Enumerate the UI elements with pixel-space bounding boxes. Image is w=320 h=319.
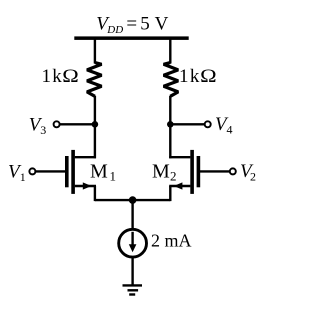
label V4 bbox=[215, 114, 233, 137]
wire M2 drain bbox=[169, 156, 190, 158]
svg-text:3: 3 bbox=[40, 123, 46, 137]
svg-text:2 mA: 2 mA bbox=[151, 231, 192, 251]
svg-text:1: 1 bbox=[20, 170, 26, 184]
wire M1 source with arrow bbox=[75, 182, 96, 201]
svg-text:2: 2 bbox=[250, 169, 256, 183]
junction drain node D1 bbox=[92, 121, 99, 128]
svg-text:4: 4 bbox=[227, 123, 233, 137]
current source I1 2 mA bbox=[119, 229, 147, 257]
wire V2 to M2 gate bbox=[200, 170, 230, 172]
power rail VDD bbox=[74, 36, 188, 40]
terminal V2 bbox=[230, 168, 236, 174]
wire common source rail bbox=[95, 199, 170, 201]
label M1 bbox=[90, 160, 116, 183]
terminal V1 bbox=[29, 168, 35, 174]
svg-text:1: 1 bbox=[110, 169, 117, 184]
svg-text:Ω: Ω bbox=[62, 66, 79, 87]
svg-text:1: 1 bbox=[179, 66, 189, 87]
wire R1 to M1 drain bbox=[94, 96, 96, 159]
wire rail to R1 bbox=[94, 40, 96, 64]
svg-text:1: 1 bbox=[42, 66, 52, 87]
terminal V3 bbox=[54, 121, 60, 127]
svg-text:Ω: Ω bbox=[200, 66, 217, 87]
label V3 bbox=[29, 114, 47, 137]
transistor M2 bbox=[190, 150, 200, 194]
wire V1 to M1 gate bbox=[35, 170, 65, 172]
svg-text:V: V bbox=[155, 13, 169, 34]
label VDD = 5 V bbox=[96, 13, 168, 35]
wire M2 source with arrow bbox=[169, 182, 190, 201]
label V2 bbox=[240, 161, 256, 184]
svg-text:5: 5 bbox=[140, 13, 150, 34]
svg-text:M: M bbox=[152, 160, 170, 182]
wire current source to ground bbox=[131, 257, 133, 286]
svg-text:2: 2 bbox=[170, 169, 177, 184]
wire drain node to V4 terminal bbox=[170, 123, 207, 125]
ground bbox=[123, 285, 143, 294]
svg-text:M: M bbox=[90, 160, 108, 182]
wire rail to R2 bbox=[169, 40, 171, 64]
wire tail node to current source bbox=[131, 200, 133, 229]
svg-text:=: = bbox=[126, 13, 137, 34]
svg-text:DD: DD bbox=[106, 24, 123, 36]
resistor R2 bbox=[164, 63, 179, 97]
wire R2 to M2 drain bbox=[169, 96, 171, 159]
resistor R1 bbox=[87, 63, 102, 97]
junction drain node D2 bbox=[167, 121, 174, 128]
wire M1 drain bbox=[75, 156, 96, 158]
wire V3 terminal to drain node bbox=[57, 123, 95, 125]
terminal V4 bbox=[205, 121, 211, 127]
transistor M1 bbox=[65, 150, 75, 194]
svg-text:k: k bbox=[52, 66, 62, 87]
label V1 bbox=[8, 161, 26, 184]
junction tail node bbox=[129, 196, 137, 204]
svg-text:k: k bbox=[190, 66, 200, 87]
label M2 bbox=[152, 160, 177, 183]
